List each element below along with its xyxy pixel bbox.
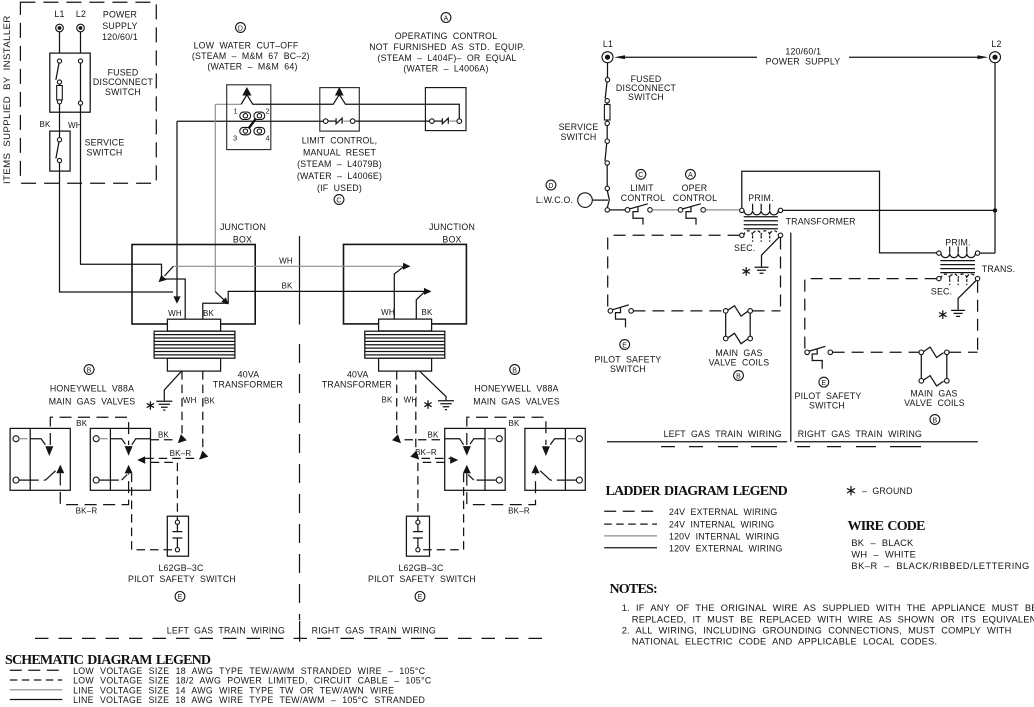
valve V2 upper plug — [110, 439, 150, 445]
dashed rule under gas train labels — [35, 637, 546, 639]
limit control pointer triangle — [335, 87, 344, 96]
word dashes under ladder labels — [661, 446, 921, 448]
wire valve3 to pilot safety top right — [418, 462, 445, 520]
svg-text:WH: WH — [68, 121, 82, 130]
svg-text:SERVICE: SERVICE — [559, 122, 599, 132]
svg-text:BK: BK — [204, 397, 216, 406]
terminal L1 ladder — [602, 52, 613, 63]
lwco terminal pad 4 — [254, 127, 265, 134]
svg-text:LINE VOLTAGE SIZE 14 AWG WIRE: LINE VOLTAGE SIZE 14 AWG WIRE TYPE TW OR… — [73, 685, 394, 695]
main gas valve coils left upper — [723, 309, 728, 314]
wire BK-R loop valve3 to valve4 — [467, 473, 536, 504]
label D circled ladder — [546, 180, 556, 190]
wire BK-R horizontal right — [422, 457, 451, 459]
transformer T3 core — [744, 217, 778, 229]
svg-text:L2: L2 — [76, 9, 86, 19]
lwco terminal pad 2 — [254, 112, 265, 119]
svg-text:B: B — [736, 373, 741, 380]
pilot circuit dashed box right — [805, 279, 978, 351]
svg-text:BK: BK — [40, 120, 52, 129]
svg-text:E: E — [622, 342, 627, 349]
main gas valve coils left lower — [723, 336, 728, 341]
arrow to L1 — [614, 55, 625, 59]
transformer WH lead right rises to arrow — [394, 267, 403, 319]
main gas valve coils right lower — [919, 379, 924, 384]
valve V1 terminals — [13, 436, 19, 442]
transformer T4 primary — [937, 251, 941, 255]
svg-text:2: 2 — [266, 107, 270, 116]
svg-text:LIMIT CONTROL,: LIMIT CONTROL, — [302, 135, 378, 145]
wire L2 to disconnect — [80, 32, 82, 53]
arrow WH right junction — [403, 263, 411, 270]
svg-text:SWITCH: SWITCH — [628, 92, 664, 102]
svg-text:PILOT SAFETY SWITCH: PILOT SAFETY SWITCH — [368, 574, 476, 584]
svg-text:LADDER DIAGRAM LEGEND: LADDER DIAGRAM LEGEND — [606, 484, 788, 499]
valve V4 upper plug — [550, 439, 565, 445]
pilot safety switch ladder right — [805, 350, 810, 355]
junction dot right rail — [993, 208, 997, 212]
svg-text:SEC.: SEC. — [734, 243, 755, 253]
arrow BK-R into valve3 — [450, 456, 458, 464]
svg-text:SEC.: SEC. — [931, 286, 952, 296]
svg-text:C: C — [638, 172, 643, 179]
wire BK long junction to junction — [203, 291, 424, 319]
main gas valve coils right upper — [919, 350, 924, 355]
pilot safety switch box right — [406, 516, 429, 556]
wire valve2 to pilot safety top — [151, 462, 178, 520]
arrow BK to valve feed right — [392, 434, 401, 443]
svg-text:SUPPLY: SUPPLY — [102, 21, 137, 31]
wire BK-R horizontal left — [145, 457, 199, 459]
coil connectors right — [921, 355, 947, 379]
transformer T4 secondary dashed — [937, 276, 941, 280]
ground symbol T4 — [951, 310, 965, 316]
operating control switch — [430, 119, 435, 124]
junction box right — [344, 244, 467, 324]
svg-text:40VA: 40VA — [238, 370, 260, 380]
ground asterisk T1 — [147, 401, 154, 410]
svg-text:MAIN GAS VALVES: MAIN GAS VALVES — [473, 396, 560, 406]
svg-text:CONTROL: CONTROL — [621, 193, 665, 203]
svg-text:JUNCTION: JUNCTION — [429, 222, 475, 232]
svg-text:A: A — [688, 172, 693, 179]
svg-text:MAIN GAS VALVES: MAIN GAS VALVES — [49, 396, 136, 406]
fuse ladder — [604, 105, 610, 121]
ground lead T1 — [164, 371, 181, 401]
svg-text:(STEAM – L4079B): (STEAM – L4079B) — [297, 159, 382, 169]
pilot safety contact right — [416, 520, 420, 524]
ground asterisk T4 — [939, 310, 946, 319]
svg-text:BK: BK — [76, 419, 88, 428]
ground lead T2 — [420, 371, 447, 400]
label B circled left — [84, 365, 94, 375]
wire L1 to disconnect — [59, 32, 61, 53]
wire BK valve2 to transformer arrow — [151, 439, 173, 441]
wire WH top horizontal — [215, 103, 241, 105]
valve V1 lower plug — [30, 479, 45, 481]
svg-text:BOX: BOX — [233, 235, 252, 245]
svg-text:VALVE COILS: VALVE COILS — [709, 358, 770, 368]
svg-text:B: B — [932, 417, 937, 424]
svg-text:LIMIT: LIMIT — [630, 183, 654, 193]
divider dashed center schematic — [299, 344, 301, 620]
limit control box C — [320, 88, 360, 132]
gas valve V2 box — [90, 428, 150, 490]
wire power supply line — [624, 56, 978, 58]
svg-text:MANUAL RESET: MANUAL RESET — [303, 147, 377, 157]
svg-text:1: 1 — [234, 107, 238, 116]
pilot circuit dashed box left — [608, 235, 781, 308]
valve V2 terminals — [93, 436, 99, 442]
transformer T3 primary — [740, 208, 744, 212]
svg-text:BK–R: BK–R — [76, 507, 98, 516]
svg-text:CONTROL: CONTROL — [673, 193, 717, 203]
divider ladder left right gas train — [790, 233, 792, 442]
svg-text:BK: BK — [427, 431, 439, 440]
terminal L1 — [56, 24, 64, 32]
wire oper to transformer gray — [706, 209, 740, 211]
label C circled ladder — [636, 169, 646, 179]
pilot safety switch box left — [167, 516, 188, 556]
wire BK service switch down to junction box — [60, 163, 174, 292]
svg-text:BK: BK — [421, 308, 433, 317]
svg-text:OPERATING CONTROL: OPERATING CONTROL — [395, 31, 498, 41]
ground asterisk T3 — [743, 267, 750, 276]
rule under ladder gas train labels — [607, 441, 978, 443]
svg-text:BK: BK — [381, 396, 393, 405]
wire WH long junction to junction — [173, 265, 403, 267]
terminal L2 — [77, 24, 85, 32]
wire WH disconnect down to junction box — [81, 105, 186, 319]
svg-text:(WATER – L4006A): (WATER – L4006A) — [403, 64, 488, 74]
fuse F1 — [57, 86, 63, 101]
arrow BK right junction — [424, 288, 432, 295]
oper control switch ladder — [678, 208, 683, 213]
transformer T1 bottom cap — [167, 358, 220, 371]
svg-text:BK: BK — [508, 419, 520, 428]
svg-text:WH – WHITE: WH – WHITE — [851, 550, 916, 560]
valve V1 upper plug — [30, 439, 45, 445]
svg-text:40VA: 40VA — [347, 370, 369, 380]
svg-text:WIRE CODE: WIRE CODE — [848, 519, 926, 534]
pilot rung dashed right — [833, 351, 978, 353]
terminal L2 ladder — [990, 52, 1001, 63]
fused disconnect switch right pole — [78, 59, 82, 63]
ground asterisk T2 — [424, 400, 431, 409]
svg-text:BK: BK — [203, 309, 215, 318]
transformer T1 core — [154, 331, 235, 358]
svg-text:WH: WH — [168, 309, 182, 318]
arrow junction WH diagonal — [215, 292, 223, 300]
wire valve2 tail to pilot safety bottom — [132, 474, 176, 550]
gas valve V3 box — [445, 428, 506, 490]
legend sample line voltage 14 awg gray — [10, 689, 63, 691]
wire between disconnect and service switch — [59, 112, 61, 137]
label E circled left — [175, 592, 185, 602]
arrow WH to bkr feed right — [410, 451, 419, 460]
svg-text:LINE VOLTAGE SIZE 18 AWG WIRE: LINE VOLTAGE SIZE 18 AWG WIRE TYPE TEW/A… — [73, 695, 425, 705]
legend sample low voltage 18/2 awg dashed — [10, 679, 63, 681]
svg-text:BK–R: BK–R — [170, 449, 192, 458]
transformer T4 core — [940, 261, 975, 273]
svg-text:C: C — [336, 197, 341, 204]
svg-text:TRANSFORMER: TRANSFORMER — [213, 380, 283, 390]
wire limit to oper gray — [652, 209, 678, 211]
wire BK loop valve1 to valve2 — [50, 417, 128, 445]
ground symbol T1 — [156, 401, 172, 410]
svg-text:120V EXTERNAL WIRING: 120V EXTERNAL WIRING — [669, 544, 783, 554]
lwco device circle — [578, 193, 593, 208]
label B circled ladder right — [930, 415, 940, 425]
fused disconnect switch left pole — [57, 59, 61, 63]
svg-text:MAIN GAS: MAIN GAS — [910, 389, 957, 399]
svg-text:MAIN GAS: MAIN GAS — [715, 348, 762, 358]
svg-text:B: B — [87, 367, 92, 374]
junction box left — [132, 245, 255, 325]
svg-text:HONEYWELL V88A: HONEYWELL V88A — [50, 384, 134, 394]
svg-text:1. IF ANY OF THE ORIGINAL WIRE: 1. IF ANY OF THE ORIGINAL WIRE AS SUPPLI… — [622, 603, 1034, 613]
svg-text:POWER SUPPLY: POWER SUPPLY — [766, 56, 841, 66]
svg-text:(IF USED): (IF USED) — [317, 183, 362, 193]
wire WH dashed T1 down — [181, 371, 183, 438]
wire valve3 tail to pilot safety bottom right — [420, 474, 464, 550]
svg-text:L2: L2 — [991, 39, 1001, 49]
svg-text:TRANSFORMER: TRANSFORMER — [322, 380, 392, 390]
svg-text:3: 3 — [233, 134, 237, 143]
arrow to L2 — [978, 55, 989, 59]
label D circled — [236, 23, 246, 33]
svg-text:LOW VOLTAGE SIZE 18/2 AWG POWE: LOW VOLTAGE SIZE 18/2 AWG POWER LIMITED,… — [73, 676, 432, 686]
svg-text:LOW VOLTAGE SIZE 18 AWG TYPE T: LOW VOLTAGE SIZE 18 AWG TYPE TEW/AWM STR… — [73, 666, 426, 676]
label A circled — [441, 13, 451, 23]
svg-text:POWER: POWER — [103, 10, 137, 20]
svg-text:D: D — [238, 25, 243, 32]
svg-text:PRIM.: PRIM. — [945, 238, 970, 248]
svg-text:REPLACED, IT MUST BE REPLACED: REPLACED, IT MUST BE REPLACED WITH WIRE … — [632, 614, 1034, 624]
lwco crossover trace — [249, 119, 256, 128]
fused disconnect switch box — [50, 53, 90, 112]
svg-text:L1: L1 — [54, 9, 64, 19]
dashed border: items supplied by installer — [20, 2, 156, 183]
svg-text:(STEAM – M&M 67 BC–2): (STEAM – M&M 67 BC–2) — [192, 51, 310, 61]
service switch box — [50, 131, 70, 171]
svg-text:(STEAM – L404F)– OR EQUAL: (STEAM – L404F)– OR EQUAL — [377, 53, 516, 63]
label 120/60/1 POWER SUPPLY — [757, 48, 849, 66]
transformer T2 bottom cap — [379, 358, 432, 371]
arrow junction BK — [173, 296, 180, 303]
transformer T1 top cap — [167, 319, 220, 331]
transformer T3 secondary dashed — [740, 233, 744, 237]
ground branch T4 — [958, 281, 976, 310]
svg-text:SWITCH: SWITCH — [561, 132, 597, 142]
operating control box A — [425, 88, 466, 131]
valve V4 terminals — [576, 436, 582, 442]
svg-text:– GROUND: – GROUND — [862, 486, 913, 496]
ground legend asterisk — [847, 486, 855, 495]
lwco terminal pad 1 — [240, 112, 251, 119]
svg-text:NOT FURNISHED AS STD. EQUIP.: NOT FURNISHED AS STD. EQUIP. — [369, 42, 524, 52]
label E circled ladder right — [819, 377, 829, 387]
wire BK transformer arrow to valve3 — [405, 439, 445, 441]
transformer BK lead right rises to arrow — [416, 292, 424, 319]
service switch contact — [57, 138, 61, 142]
limit control switch — [323, 119, 328, 124]
rail L1 down — [607, 63, 609, 78]
svg-text:BK–R – BLACK/RIBBED/LETTERING: BK–R – BLACK/RIBBED/LETTERING — [851, 561, 1029, 571]
wire WH dashed T2 down — [415, 371, 417, 455]
svg-text:L62GB–3C: L62GB–3C — [398, 563, 444, 573]
wire BK loop valve3 to valve4 — [467, 417, 546, 445]
svg-text:FUSED: FUSED — [108, 67, 139, 77]
svg-text:BK – BLACK: BK – BLACK — [851, 538, 914, 548]
legend 120v external black — [604, 547, 657, 549]
valve V3 lower plug — [474, 479, 485, 481]
svg-text:SWITCH: SWITCH — [87, 147, 123, 157]
svg-text:TRANSFORMER: TRANSFORMER — [786, 216, 856, 226]
svg-text:4: 4 — [266, 134, 270, 143]
label C circled — [334, 195, 344, 205]
svg-text:BK: BK — [158, 431, 170, 440]
svg-text:PILOT SAFETY: PILOT SAFETY — [594, 355, 661, 365]
limit control switch ladder — [625, 208, 630, 213]
wire BK horizontal through lwco to limit control — [177, 120, 323, 122]
svg-text:E: E — [821, 380, 826, 387]
svg-text:24V INTERNAL WIRING: 24V INTERNAL WIRING — [669, 520, 774, 530]
arrow WH to valve feed — [178, 434, 187, 443]
ground branch T3 — [762, 237, 780, 266]
svg-text:BK: BK — [281, 282, 293, 291]
wire BK dashed T2 down — [396, 371, 398, 438]
svg-text:JUNCTION: JUNCTION — [220, 222, 266, 232]
label E circled right — [415, 592, 425, 602]
gas valve V4 box — [525, 428, 585, 490]
divider solid between junction boxes — [299, 236, 301, 325]
valve V3 terminals — [496, 436, 502, 442]
svg-text:(WATER – L4006E): (WATER – L4006E) — [297, 171, 382, 181]
lwco pointer triangle — [242, 87, 251, 96]
svg-text:LEFT GAS TRAIN WIRING: LEFT GAS TRAIN WIRING — [664, 429, 782, 439]
svg-text:120/60/1: 120/60/1 — [785, 46, 821, 56]
pilot safety switch ladder left — [608, 309, 613, 314]
svg-text:L62GB–3C: L62GB–3C — [158, 563, 204, 573]
svg-text:SWITCH: SWITCH — [610, 364, 646, 374]
coil connectors left — [726, 313, 751, 336]
lwco float peak — [241, 95, 459, 119]
svg-text:SWITCH: SWITCH — [809, 401, 845, 411]
lwco switch ladder — [605, 186, 609, 190]
svg-text:BOX: BOX — [442, 235, 461, 245]
arrow WH left junction — [165, 266, 174, 276]
svg-text:E: E — [418, 594, 423, 601]
svg-text:D: D — [548, 183, 553, 190]
svg-text:WH: WH — [279, 256, 293, 265]
wire BK vertical from lwco to junction box — [176, 121, 178, 299]
legend 24v internal dashed — [604, 523, 657, 525]
valve V4 lower plug — [550, 479, 565, 481]
svg-text:E: E — [178, 594, 183, 601]
fused disconnect switch ladder — [605, 78, 609, 82]
transformer T2 top cap — [379, 319, 432, 331]
pilot safety contact left — [175, 520, 179, 524]
svg-text:LOW WATER CUT–OFF: LOW WATER CUT–OFF — [194, 41, 299, 51]
svg-text:PRIM.: PRIM. — [748, 193, 773, 203]
wire BK dashed T1 down — [202, 371, 204, 455]
legend 120v internal gray — [604, 535, 657, 537]
svg-text:BK–R: BK–R — [508, 507, 530, 516]
label B circled right — [510, 365, 520, 375]
svg-text:LEFT GAS TRAIN WIRING: LEFT GAS TRAIN WIRING — [167, 626, 285, 636]
lwco terminal pad 3 — [240, 127, 251, 134]
pilot rung dashed left — [608, 310, 781, 312]
svg-text:A: A — [444, 15, 449, 22]
svg-text:(WATER – M&M 64): (WATER – M&M 64) — [207, 62, 297, 72]
wire primary loop to right transformer — [742, 171, 937, 253]
wire primary to right rail — [783, 209, 995, 211]
svg-text:ITEMS SUPPLIED BY INSTALLER: ITEMS SUPPLIED BY INSTALLER — [2, 15, 13, 184]
svg-text:BK–R: BK–R — [415, 448, 437, 457]
svg-text:VALVE COILS: VALVE COILS — [904, 398, 965, 408]
wire WH vertical from lwco to junction box — [214, 104, 216, 291]
svg-text:WH: WH — [183, 396, 197, 405]
label B circled ladder left — [734, 371, 744, 381]
svg-text:HONEYWELL V88A: HONEYWELL V88A — [474, 384, 558, 394]
svg-text:B: B — [512, 367, 517, 374]
svg-text:120/60/1: 120/60/1 — [102, 32, 138, 42]
svg-text:SWITCH: SWITCH — [105, 87, 141, 97]
svg-text:WH: WH — [404, 396, 418, 405]
low water cut-off box D — [227, 85, 271, 150]
svg-text:TRANS.: TRANS. — [982, 264, 1015, 274]
rail L2 down — [994, 63, 996, 253]
svg-text:DISCONNECT: DISCONNECT — [93, 77, 154, 87]
svg-text:2. ALL WIRING, INCLUDING GROUN: 2. ALL WIRING, INCLUDING GROUNDING CONNE… — [622, 626, 1012, 636]
svg-text:L.W.C.O.: L.W.C.O. — [536, 195, 573, 205]
valve V2 lower plug — [110, 479, 121, 481]
service switch ladder — [605, 139, 609, 143]
label E circled ladder left — [620, 340, 630, 350]
ground symbol T2 — [438, 401, 454, 410]
label A circled ladder — [686, 169, 696, 179]
rung from rail to limit control — [610, 209, 626, 211]
valve V3 upper plug — [445, 439, 485, 445]
svg-text:PILOT SAFETY: PILOT SAFETY — [795, 391, 862, 401]
arrow BK to bkr feed — [199, 451, 208, 460]
arrow BK-R into valve2 — [137, 456, 145, 464]
ground symbol T3 — [755, 267, 769, 273]
svg-text:RIGHT GAS TRAIN WIRING: RIGHT GAS TRAIN WIRING — [798, 429, 922, 439]
svg-text:NATIONAL ELECTRIC CODE AND APP: NATIONAL ELECTRIC CODE AND APPLICABLE LO… — [632, 637, 937, 647]
svg-text:OPER: OPER — [682, 183, 708, 193]
wire BK-R loop valve1 to valve2 — [60, 473, 128, 504]
svg-text:WH: WH — [381, 308, 395, 317]
svg-text:24V EXTERNAL WIRING: 24V EXTERNAL WIRING — [669, 507, 777, 517]
transformer T2 core — [365, 331, 445, 358]
svg-text:RIGHT GAS TRAIN WIRING: RIGHT GAS TRAIN WIRING — [312, 626, 436, 636]
legend sample low voltage 18 awg dashed — [10, 669, 63, 671]
legend 24v external dashed — [604, 510, 657, 512]
svg-text:120V INTERNAL WIRING: 120V INTERNAL WIRING — [669, 532, 780, 542]
svg-text:PILOT SAFETY SWITCH: PILOT SAFETY SWITCH — [128, 574, 236, 584]
gas valve V1 box — [10, 428, 70, 490]
svg-text:NOTES:: NOTES: — [610, 582, 657, 597]
svg-text:SERVICE: SERVICE — [85, 137, 125, 147]
legend sample line voltage 18 awg black — [10, 699, 63, 701]
svg-text:L1: L1 — [603, 39, 613, 49]
